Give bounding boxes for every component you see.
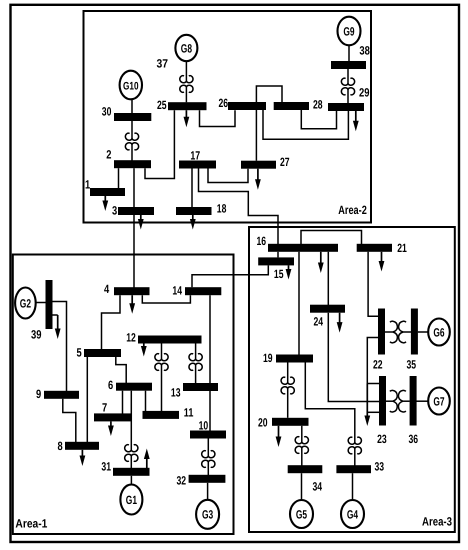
bus 30 bbox=[102, 104, 152, 121]
bus 22 bbox=[373, 309, 385, 372]
wire 22-23 bbox=[367, 338, 379, 384]
bus 26 bbox=[219, 96, 267, 110]
bus 8 bbox=[58, 439, 100, 453]
wire 16-19 bbox=[298, 252, 300, 355]
svg-text:4: 4 bbox=[104, 282, 109, 296]
transformer 19-20 bbox=[281, 363, 294, 418]
svg-text:G8: G8 bbox=[181, 41, 192, 55]
bus 1 bbox=[85, 178, 125, 197]
bus 35 bbox=[407, 309, 418, 372]
load arrow at bus 16 bbox=[318, 252, 324, 273]
wire 16-15 bbox=[277, 252, 279, 258]
load arrow at bus 27 bbox=[255, 169, 261, 190]
load arrow at bus 25 bbox=[184, 110, 190, 127]
svg-text:15: 15 bbox=[274, 267, 284, 281]
svg-text:7: 7 bbox=[102, 401, 107, 415]
wire 34-G5 bbox=[301, 473, 303, 500]
bus 5 bbox=[77, 346, 122, 360]
svg-text:1: 1 bbox=[85, 178, 90, 192]
wire 17-18 bbox=[191, 169, 193, 208]
transformer 37 (G8 step-up to bus 25) bbox=[180, 61, 193, 102]
svg-text:31: 31 bbox=[101, 460, 111, 474]
svg-text:26: 26 bbox=[219, 96, 229, 110]
bus 19 bbox=[263, 351, 313, 365]
svg-text:24: 24 bbox=[314, 315, 324, 329]
generator G2 bbox=[15, 288, 36, 319]
transformer 12-13 bbox=[189, 344, 202, 384]
bus 6 bbox=[108, 378, 152, 392]
bus 32 bbox=[177, 474, 226, 488]
bus 23 bbox=[377, 376, 387, 446]
wire 28-29 bbox=[301, 110, 336, 129]
svg-text:G10: G10 bbox=[123, 80, 139, 92]
wire 5-6 bbox=[116, 357, 126, 383]
wire 24-23 bbox=[328, 313, 379, 402]
bus 13 bbox=[171, 383, 218, 400]
svg-text:3: 3 bbox=[112, 204, 117, 218]
svg-text:10: 10 bbox=[199, 419, 209, 433]
wire 17-27 bbox=[208, 169, 248, 183]
svg-text:39: 39 bbox=[31, 328, 42, 342]
svg-text:28: 28 bbox=[313, 98, 323, 112]
bus 28 bbox=[274, 98, 323, 112]
svg-text:22: 22 bbox=[373, 358, 383, 372]
svg-text:32: 32 bbox=[177, 474, 187, 488]
svg-text:14: 14 bbox=[172, 284, 182, 298]
svg-text:G5: G5 bbox=[296, 507, 307, 521]
load arrow at bus 20 bbox=[276, 426, 282, 447]
svg-text:13: 13 bbox=[171, 386, 181, 400]
Area-1 box bbox=[13, 255, 234, 535]
bus 34 bbox=[288, 465, 323, 493]
transformer 33 (19-33 step-down) bbox=[348, 434, 361, 466]
bus 4 bbox=[104, 282, 150, 296]
transformer 20-34 bbox=[295, 426, 308, 466]
wire 2-3 bbox=[133, 168, 135, 207]
wire 19-33 riser bbox=[305, 363, 355, 435]
svg-text:25: 25 bbox=[157, 98, 167, 112]
load arrow at bus 8 bbox=[80, 450, 86, 466]
wire 16-21 bbox=[301, 231, 362, 245]
load arrow at bus 21 bbox=[379, 252, 385, 272]
wire 26-29 bbox=[263, 110, 348, 139]
wire 3-4 (down to Area-1) bbox=[133, 215, 135, 288]
svg-text:9: 9 bbox=[36, 387, 41, 401]
wire 21-22 bbox=[368, 252, 378, 316]
transformer 12-11 bbox=[155, 344, 168, 412]
svg-text:16: 16 bbox=[257, 234, 267, 248]
transformer 6-31 bbox=[125, 391, 138, 468]
generator G1 bbox=[120, 485, 142, 515]
transformer 23-36 bbox=[386, 390, 410, 412]
arrow (generation) at bus 31 bbox=[144, 449, 150, 470]
bus 24 bbox=[310, 305, 345, 329]
Area-3 box bbox=[249, 227, 455, 532]
wire 5-8 bbox=[86, 357, 88, 442]
svg-text:Area-3: Area-3 bbox=[422, 514, 452, 528]
load arrow at bus 24 bbox=[337, 313, 343, 333]
bus 36 bbox=[409, 376, 419, 446]
bus 12 bbox=[126, 330, 201, 344]
generator G8 bbox=[175, 35, 197, 61]
wire 17-16 (into Area-3) bbox=[199, 169, 279, 245]
bus 18 bbox=[176, 201, 227, 215]
svg-text:6: 6 bbox=[108, 378, 113, 392]
svg-text:8: 8 bbox=[58, 439, 63, 453]
wire 14-15 (into Area-3) bbox=[192, 265, 268, 287]
bus 29 bbox=[328, 103, 364, 111]
wire 2-25 bbox=[145, 110, 174, 178]
bus 10 bbox=[190, 419, 226, 439]
generator G9 bbox=[338, 17, 361, 46]
wire 2-1 bbox=[118, 168, 120, 188]
generator G3 bbox=[196, 500, 219, 529]
generator G6 bbox=[428, 319, 450, 346]
load arrow at bus 4 bbox=[129, 295, 135, 314]
svg-text:2: 2 bbox=[106, 148, 111, 162]
wire 6-7 bbox=[122, 391, 124, 414]
svg-text:G4: G4 bbox=[347, 507, 358, 521]
bus 38 bbox=[331, 61, 366, 69]
svg-text:G6: G6 bbox=[433, 325, 444, 339]
svg-text:36: 36 bbox=[409, 432, 419, 446]
svg-text:38: 38 bbox=[359, 43, 370, 57]
wire 31-G1 bbox=[130, 476, 132, 485]
svg-text:29: 29 bbox=[359, 86, 370, 100]
bus 20 bbox=[258, 416, 309, 430]
wire 6-11 bbox=[145, 391, 147, 412]
svg-text:21: 21 bbox=[397, 241, 407, 255]
bus 15 bbox=[258, 257, 294, 280]
transformer 30-2 bbox=[125, 121, 138, 161]
wire 32-G3 bbox=[207, 483, 209, 500]
bus 14 bbox=[172, 284, 221, 298]
generator G5 bbox=[290, 500, 313, 528]
bus 31 bbox=[101, 460, 149, 476]
transformer 22-35 bbox=[385, 321, 411, 343]
Area-2 box bbox=[84, 11, 372, 223]
load arrow at bus 23 bbox=[364, 384, 379, 427]
svg-text:34: 34 bbox=[313, 480, 323, 494]
svg-text:G7: G7 bbox=[433, 394, 444, 408]
load arrow at bus 12 bbox=[141, 344, 147, 357]
svg-text:G3: G3 bbox=[202, 508, 213, 522]
bus 16 bbox=[257, 234, 339, 252]
bus 3 bbox=[112, 204, 154, 218]
load arrow at bus 39 bbox=[53, 315, 61, 339]
svg-text:G2: G2 bbox=[20, 296, 31, 310]
load arrow at bus 7 bbox=[108, 421, 114, 436]
wire 25-26 bbox=[200, 110, 236, 126]
svg-text:23: 23 bbox=[377, 432, 387, 446]
wire 26-28 bbox=[256, 86, 282, 102]
load arrow at bus 29 bbox=[353, 111, 359, 131]
bus 39 bbox=[31, 280, 53, 342]
wire 14-13 bbox=[209, 295, 211, 383]
wire 4-14 bbox=[142, 295, 190, 303]
wire G10 to bus 30 bbox=[131, 99, 133, 114]
bus 33 bbox=[336, 460, 384, 474]
load arrow at bus 3 bbox=[138, 215, 144, 230]
svg-text:19: 19 bbox=[263, 351, 273, 365]
bus 27 bbox=[241, 155, 290, 169]
bus 21 bbox=[357, 241, 407, 255]
bus 7 bbox=[94, 401, 131, 422]
svg-text:12: 12 bbox=[126, 330, 136, 344]
generator G10 bbox=[120, 71, 142, 100]
generator G4 bbox=[341, 500, 364, 528]
svg-text:11: 11 bbox=[184, 406, 194, 420]
svg-text:27: 27 bbox=[280, 155, 290, 169]
bus 17 bbox=[179, 149, 216, 169]
svg-text:17: 17 bbox=[190, 149, 200, 163]
wire 26-27 bbox=[255, 110, 257, 161]
load arrow at bus 18 bbox=[190, 215, 196, 230]
wire G2-39 bbox=[36, 302, 46, 304]
transformer 38-29 bbox=[341, 69, 354, 103]
svg-text:G1: G1 bbox=[126, 493, 137, 507]
svg-text:33: 33 bbox=[375, 460, 385, 474]
wire 39-9 bbox=[53, 302, 67, 392]
bus 11 bbox=[143, 406, 194, 420]
svg-text:Area-1: Area-1 bbox=[15, 516, 47, 530]
svg-text:5: 5 bbox=[77, 346, 82, 360]
bus 9 bbox=[36, 387, 79, 401]
wire 9-8 bbox=[63, 399, 76, 442]
load arrow at bus 15 bbox=[286, 265, 292, 279]
generator G7 bbox=[428, 388, 450, 415]
wire 16-24 bbox=[327, 252, 329, 305]
svg-text:35: 35 bbox=[407, 358, 417, 372]
wire 4-5 bbox=[102, 295, 121, 349]
wire 35-G6 bbox=[418, 331, 429, 333]
svg-text:20: 20 bbox=[258, 416, 268, 430]
svg-text:37: 37 bbox=[157, 57, 169, 71]
wire G9 to bus 38 bbox=[348, 45, 350, 61]
transformer 10-32 bbox=[202, 439, 215, 476]
svg-text:G9: G9 bbox=[343, 24, 354, 38]
svg-text:Area-2: Area-2 bbox=[338, 203, 367, 217]
load arrow at bus 1 bbox=[102, 196, 108, 211]
bus 2 bbox=[106, 148, 151, 169]
svg-text:18: 18 bbox=[217, 201, 227, 215]
svg-text:30: 30 bbox=[102, 104, 112, 118]
wire 33-G4 bbox=[352, 473, 354, 500]
wire 36-G7 bbox=[417, 400, 429, 402]
wire 13-10 bbox=[209, 391, 211, 431]
bus 25 bbox=[157, 98, 207, 112]
